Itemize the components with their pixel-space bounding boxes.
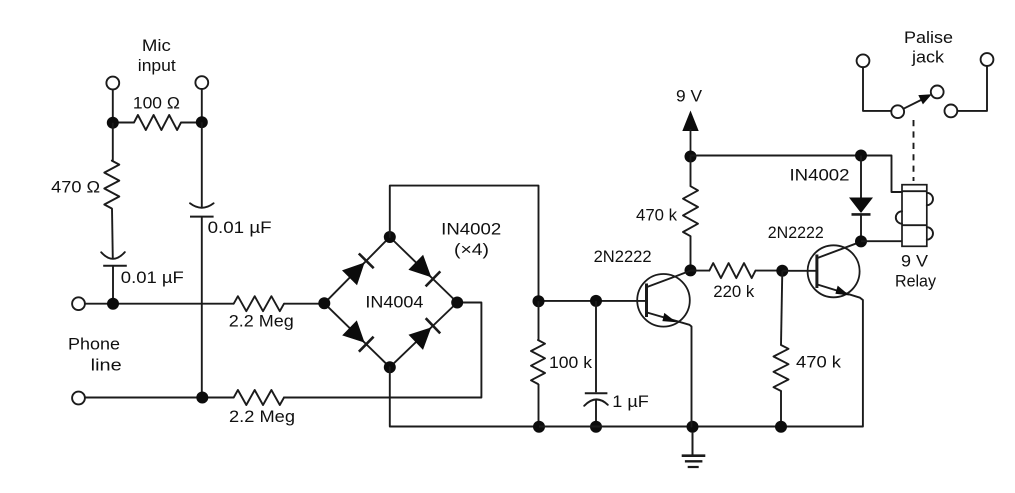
svg-text:100 k: 100 k xyxy=(549,353,593,372)
resistor 470 k upper xyxy=(683,157,698,271)
diode D4 (bridge bottom-right) xyxy=(409,318,441,350)
resistor 220 k xyxy=(691,263,783,278)
wire mic left terminal to node xyxy=(112,89,114,122)
value label 0.01 µF left xyxy=(121,268,184,287)
capacitor 1 µF xyxy=(584,301,608,427)
ground symbol xyxy=(682,432,706,467)
value label 470 k upper xyxy=(636,206,677,225)
capacitor 0.01 µF left xyxy=(101,252,127,304)
svg-text:IN4002: IN4002 xyxy=(790,166,850,185)
node bridge bottom xyxy=(384,361,396,373)
bottom ground rail xyxy=(539,426,863,428)
wire phone bottom line xyxy=(85,397,234,399)
resistor 2.2 Meg top xyxy=(234,296,325,311)
value label IN4002 diode xyxy=(790,166,850,185)
wire bridge top to DC plus rail xyxy=(390,186,539,302)
svg-text:2N2222: 2N2222 xyxy=(594,247,652,266)
transistor Q1 2N2222 xyxy=(637,271,691,427)
node phone top xyxy=(107,298,119,310)
bridge edge left-top xyxy=(324,237,390,303)
diode D1 (bridge left-top) xyxy=(342,254,374,286)
resistor 100 k xyxy=(531,301,545,426)
wire jack right xyxy=(957,66,987,111)
terminal jack top right xyxy=(981,53,994,66)
resistor 470 Ω xyxy=(104,123,119,260)
node ground junction xyxy=(687,421,699,433)
svg-text:470 k: 470 k xyxy=(796,353,842,372)
label IN4004 bridge xyxy=(365,293,423,312)
terminal mic input right xyxy=(195,76,208,89)
value label 1 µF xyxy=(612,392,649,411)
wire base rail xyxy=(539,300,647,302)
value label 2.2 Meg top xyxy=(229,312,294,331)
resistor 2.2 Meg bottom xyxy=(234,390,284,405)
svg-text:input: input xyxy=(138,56,176,75)
svg-text:470 k: 470 k xyxy=(636,206,677,225)
value label 470 k lower xyxy=(796,353,842,372)
wire mic right terminal to node xyxy=(201,89,203,123)
svg-text:470 Ω: 470 Ω xyxy=(51,178,100,197)
terminal phone line top xyxy=(72,297,85,310)
node 470 k lower bottom xyxy=(775,421,787,433)
svg-text:IN4004: IN4004 xyxy=(365,293,423,312)
transistor Q2 2N2222 xyxy=(782,242,863,427)
wire phone top line xyxy=(85,303,234,305)
node bridge top xyxy=(384,231,396,243)
terminal jack top left xyxy=(857,54,870,67)
svg-text:Palise: Palise xyxy=(904,28,953,47)
node mic left xyxy=(107,117,119,129)
wire phone bottom to bridge right xyxy=(284,303,481,398)
svg-text:Mic: Mic xyxy=(142,36,172,55)
label 9 V supply xyxy=(676,87,703,106)
node diode top xyxy=(855,150,867,162)
terminal phone line bottom xyxy=(72,392,85,405)
label 2N2222 Q1 xyxy=(594,247,652,266)
bridge edge bottom-right xyxy=(390,303,457,368)
svg-text:jack: jack xyxy=(911,48,945,67)
svg-text:Phone: Phone xyxy=(68,335,120,354)
node 100 k bottom xyxy=(533,421,545,433)
svg-text:100 Ω: 100 Ω xyxy=(133,94,180,113)
switch throw contact xyxy=(931,86,944,99)
capacitor 0.01 µF right xyxy=(190,122,214,397)
svg-text:0.01 µF: 0.01 µF xyxy=(121,268,184,287)
wire 9 V rail to relay xyxy=(691,156,903,193)
node mic right xyxy=(196,116,208,128)
node phone bottom xyxy=(196,392,208,404)
label Mic input xyxy=(138,36,176,75)
value label 220 k xyxy=(713,282,754,301)
label IN4002 x4 xyxy=(441,220,501,260)
relay coil 9 V xyxy=(896,185,933,247)
node 1 µF top xyxy=(590,295,602,307)
label Phone line xyxy=(68,335,122,375)
svg-text:line: line xyxy=(91,356,122,375)
node Q1 collector junction xyxy=(685,264,697,276)
supply 9 V arrow xyxy=(682,111,698,157)
linkage dashed relay to switch xyxy=(913,120,915,181)
switch lever arrow xyxy=(904,94,932,109)
node diode bottom xyxy=(855,235,867,247)
node DC plus xyxy=(533,295,545,307)
node 1 µF bottom xyxy=(590,421,602,433)
svg-text:1 µF: 1 µF xyxy=(612,392,649,411)
switch NC contact xyxy=(945,105,958,118)
svg-text:IN4002: IN4002 xyxy=(441,220,501,239)
resistor 470 k lower xyxy=(774,271,789,427)
svg-text:9 V: 9 V xyxy=(901,252,929,271)
label 2N2222 Q2 xyxy=(768,223,824,242)
value label 2.2 Meg bottom xyxy=(229,407,295,426)
svg-text:2.2 Meg: 2.2 Meg xyxy=(229,407,295,426)
wire jack left xyxy=(863,67,891,111)
svg-text:(×4): (×4) xyxy=(454,240,489,259)
bridge edge left-bottom xyxy=(324,303,390,367)
node Q2 base junction xyxy=(776,265,788,277)
svg-text:220 k: 220 k xyxy=(713,282,754,301)
wire bridge bottom to ground rail xyxy=(390,367,539,426)
value label 100 Ω xyxy=(133,94,180,113)
value label 470 Ω xyxy=(51,178,100,197)
switch common contact xyxy=(891,105,904,118)
wire diode junction to relay xyxy=(861,240,902,242)
diode D2 (bridge top-right) xyxy=(408,255,440,287)
node bridge right xyxy=(451,297,463,309)
node bridge left xyxy=(318,297,330,309)
resistor 100 Ω xyxy=(113,115,202,130)
svg-text:9 V: 9 V xyxy=(676,87,703,106)
value label 100 k xyxy=(549,353,593,372)
diode IN4002 flyback xyxy=(849,156,873,242)
terminal mic input left xyxy=(106,77,119,90)
diode D3 (bridge left-bottom) xyxy=(342,320,373,351)
svg-text:2.2 Meg: 2.2 Meg xyxy=(229,312,294,331)
label 9 V Relay xyxy=(895,252,936,291)
label Palise jack xyxy=(904,28,953,67)
svg-text:Relay: Relay xyxy=(895,272,936,291)
svg-text:0.01 µF: 0.01 µF xyxy=(208,218,272,237)
node 9 V xyxy=(685,151,697,163)
value label 0.01 µF right xyxy=(208,218,272,237)
svg-text:2N2222: 2N2222 xyxy=(768,223,824,242)
bridge edge top-right xyxy=(390,237,457,303)
